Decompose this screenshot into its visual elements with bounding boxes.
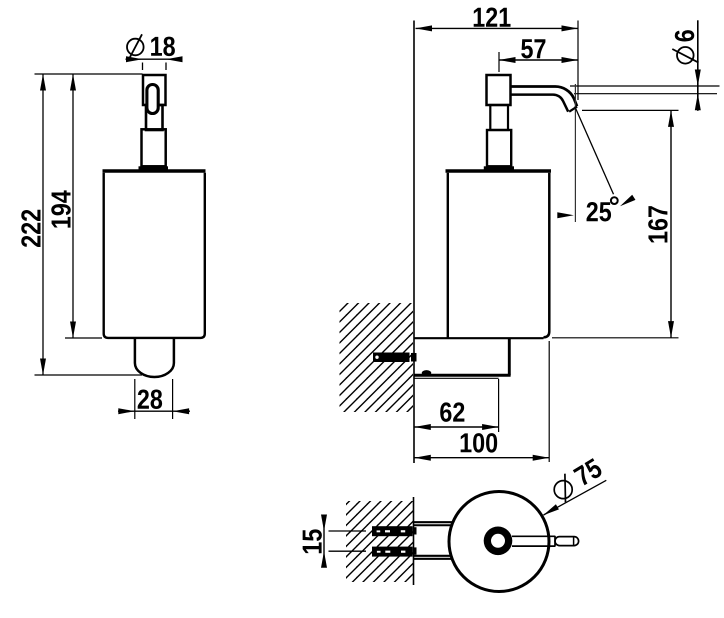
pump ring hole [491,534,505,548]
dim 194 arrows [70,74,76,338]
dim 62 arrows [414,424,498,430]
dim Ø18 symbol [127,34,144,59]
pump flange side [484,166,514,169]
dim Ø75 leader arrow [542,504,559,518]
dim 28 extension lines [135,379,173,419]
screw anchor 1 head [413,527,417,534]
dim 121 text [474,7,511,26]
dim Ø75 symbol [554,474,572,503]
pump stem side [490,105,508,130]
dim 222 arrows [40,74,46,375]
dim Ø18 arrows [126,56,183,62]
dim 167 text [648,206,668,242]
bracket arm top inner edge [414,524,451,526]
Ø6 extension line top [570,85,720,87]
dim 194 bottom reference line [65,337,102,339]
spout tip cap [569,107,577,112]
dim 57 arrows [499,57,578,63]
dim 222 bottom reference line [35,374,143,376]
dim 167 line [670,110,672,337]
spout top view part 2 [555,537,579,546]
dim 57 line [499,59,578,61]
dim 222 line [42,74,44,375]
pump flange front [139,166,169,169]
dim 100 text [461,433,498,453]
spout top view tick [573,537,575,545]
dim 194 line [72,74,74,338]
screw anchor 2 head [413,547,417,554]
dim 222 top reference line [35,73,143,75]
screw anchor 1 thread marks [377,530,406,532]
Ø18 extension dashes [143,63,167,71]
dim 62 ext line right [498,379,500,432]
dim Ø75 leader [544,480,607,515]
nozzle tip reference line [582,109,679,111]
bracket under lip [414,377,499,379]
body side left edge [447,173,449,338]
Ø6 extension line bottom [574,93,717,95]
dim 28 line [118,410,190,412]
dim 100 ext line right [548,341,550,462]
spout top view part 1 [512,536,555,547]
wall hatch block top view [346,501,413,582]
bracket arm bottom inner edge [414,555,451,557]
pump ring top view [484,527,513,556]
body side top edge [446,169,552,173]
25 text [587,202,612,222]
dim 15 leader line 2 [329,550,367,552]
dim Ø6 line [697,20,699,111]
ext line 121/57 right [577,21,579,101]
angle arrow on vertical [557,212,574,218]
dim 15 text [303,529,322,553]
spout outer line [511,86,577,106]
bottom nub front [135,338,174,378]
pump head side [487,75,511,105]
pump collar side [487,130,511,166]
dim 167 arrows [668,110,674,337]
body front top edge [103,169,206,173]
wall face line top view [413,497,415,585]
dim 15 line [323,515,325,568]
angle arrow on diagonal [618,195,635,209]
dim 57 text [521,39,545,58]
body front outline [104,173,205,338]
set screw dot [422,370,432,376]
dim Ø75 text [573,458,604,487]
dim 28 arrows [118,408,189,414]
dim 62 line [414,426,498,428]
body side right edge [544,173,550,338]
dim 167 bottom reference line [552,337,679,339]
body circle top view [449,492,549,592]
body bottom / bracket top line [414,337,544,339]
dim 121 line [416,27,579,29]
dim 62 text [440,402,464,422]
bracket arm top edge [414,521,452,523]
dim 222 text [21,210,40,247]
dim Ø18 text [151,37,175,57]
screw anchor 2 [372,547,413,557]
dim 100 arrows [414,455,549,461]
dim 121 arrows [416,25,579,31]
spout inner line [511,95,568,112]
wall hatch block side [340,303,414,412]
pump head front [143,75,166,105]
dim Ø6 text [675,30,695,41]
wall screw side white dot [375,356,378,359]
bracket arm bottom edge [414,558,452,560]
pump slot front [147,85,158,114]
dim Ø6 arrows [695,70,701,111]
dim Ø18 line [126,58,183,60]
bracket bottom edge [414,374,511,377]
degree symbol [611,197,618,204]
pump collar front [142,129,166,166]
ext line 57 left [498,52,500,72]
dim 100 line [414,457,549,459]
dim 194 text [51,190,71,227]
screw anchor 1 [372,526,413,536]
dim 15 leader line 1 [329,530,367,532]
angle reference vertical line [574,84,576,222]
dim Ø6 symbol [672,47,698,64]
dim 28 text [138,389,162,409]
angle diagonal line [575,107,614,195]
wall screw side [373,353,417,363]
wall face line [413,21,415,464]
bracket right edge [508,338,511,375]
dim 15 arrows [321,515,327,568]
pump neck front [146,105,163,130]
screw anchor 2 thread marks [377,551,406,553]
